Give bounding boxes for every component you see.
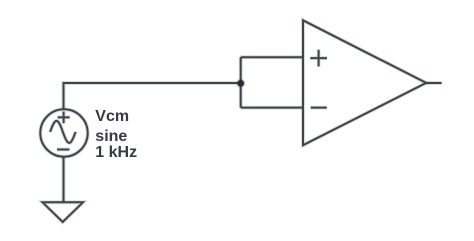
label Vcm sine 1 kHz xyxy=(95,108,137,161)
wire to non-inverting input xyxy=(241,55,303,59)
op-amp U1 xyxy=(303,20,426,145)
wire from source top to node xyxy=(64,83,241,109)
wire from source bottom to ground xyxy=(62,157,66,202)
wire op-amp output xyxy=(426,81,441,85)
op-amp plus input marking xyxy=(310,50,327,67)
wire to inverting input xyxy=(241,106,303,110)
voltage source plus polarity mark xyxy=(58,112,70,124)
ground xyxy=(43,202,84,222)
svg-text:Vcm: Vcm xyxy=(95,108,129,125)
wire node vertical xyxy=(239,57,243,107)
voltage source V1 circle xyxy=(40,109,87,156)
svg-text:sine: sine xyxy=(95,128,127,145)
svg-text:1 kHz: 1 kHz xyxy=(95,144,137,161)
voltage source minus polarity mark xyxy=(57,148,70,152)
node junction dot xyxy=(236,79,245,88)
voltage source sine waveform xyxy=(50,121,76,143)
op-amp minus input marking xyxy=(311,106,327,110)
